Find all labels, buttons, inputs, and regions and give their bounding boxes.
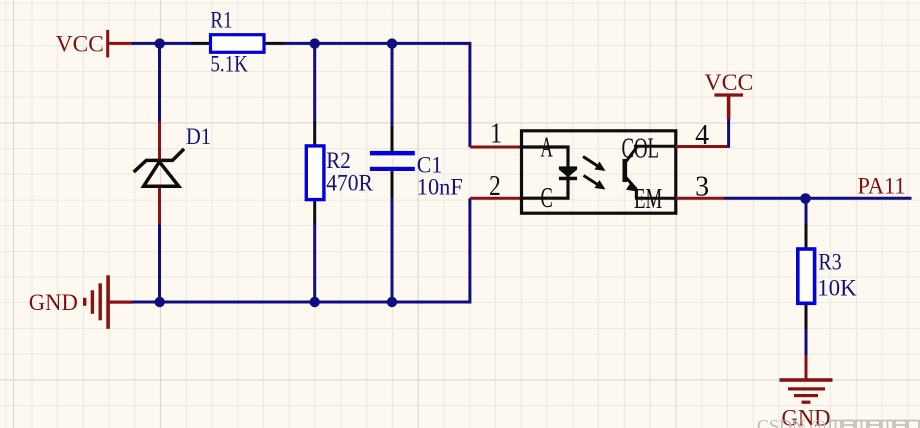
optocoupler U1 cathode lead (C) — [522, 176, 569, 198]
wire: pin 4 up to VCC — [727, 118, 730, 147]
svg-text:A: A — [541, 133, 554, 164]
wire: pin 2 corner down to bottom rail, rail to GND — [132, 198, 470, 302]
ground GND (right) — [780, 355, 833, 404]
pin 3 wire (red) — [676, 197, 725, 200]
optocoupler U1 LED — [559, 166, 577, 180]
wire: C1 branch upper — [391, 43, 394, 127]
wire: R2 branch lower — [313, 223, 316, 303]
svg-text:VCC: VCC — [704, 70, 753, 95]
wire: R2 branch upper — [313, 43, 316, 122]
optocoupler U1 box — [522, 131, 676, 213]
svg-text:10K: 10K — [817, 276, 857, 301]
pin 4 wire (red) — [676, 145, 730, 148]
svg-text:470R: 470R — [326, 171, 373, 196]
junction: top rail / C1 — [387, 38, 397, 48]
wire: pin 3 to PA11 — [724, 197, 912, 200]
power port VCC (left) — [108, 30, 133, 58]
wire: D1 branch upper — [158, 43, 161, 122]
junction: bottom rail / C1 — [387, 297, 397, 307]
svg-text:C: C — [541, 183, 553, 214]
svg-text:3: 3 — [695, 172, 709, 203]
svg-text:2: 2 — [489, 171, 501, 202]
ground GND (left) — [83, 275, 132, 329]
wire: junction down to R3 — [805, 198, 808, 225]
svg-text:GND: GND — [29, 290, 78, 315]
wire: R3 to GND — [805, 329, 808, 356]
junction: bottom rail / R2 — [310, 297, 320, 307]
zener diode D1 — [135, 122, 183, 225]
wire: C1 branch lower — [391, 196, 394, 302]
resistor R2 — [306, 121, 324, 224]
junction: bottom rail / D1 — [155, 297, 165, 307]
power port VCC (right) — [714, 94, 743, 119]
junction: top rail / D1 — [155, 38, 165, 48]
svg-text:1: 1 — [490, 119, 502, 150]
svg-text:5.1K: 5.1K — [210, 52, 248, 77]
svg-text:D1: D1 — [186, 124, 211, 149]
svg-text:VCC: VCC — [56, 32, 104, 57]
svg-text:COL: COL — [622, 134, 660, 165]
svg-text:CSDN @: CSDN @ — [757, 416, 826, 428]
junction: PA11 rail / R3 — [800, 193, 811, 204]
junction: top rail / R2 — [310, 38, 320, 48]
svg-text:4: 4 — [695, 120, 709, 151]
svg-text:PA11: PA11 — [858, 174, 906, 199]
watermark — [757, 416, 919, 428]
pin 1 wire (red) — [470, 146, 522, 149]
optocoupler U1 light arrow 1 — [583, 157, 606, 172]
resistor R1 — [191, 35, 285, 53]
optocoupler U1 light arrow 2 — [584, 176, 606, 190]
svg-text:R1: R1 — [210, 8, 232, 33]
svg-text:R3: R3 — [818, 250, 841, 275]
svg-text:EM: EM — [634, 184, 662, 215]
wire: R1 to corner, down to pin 1 — [284, 43, 470, 147]
wire: VCC port to R1 — [132, 42, 191, 45]
optocoupler U1 anode lead (A) — [522, 147, 569, 171]
svg-text:R2: R2 — [326, 148, 351, 173]
optocoupler U1 phototransistor — [623, 146, 676, 198]
capacitor C1 — [370, 126, 415, 197]
resistor R3 — [798, 224, 815, 330]
pin 2 wire (red) — [470, 197, 522, 200]
svg-text:10nF: 10nF — [417, 175, 463, 200]
wire: D1 branch lower — [158, 224, 161, 303]
